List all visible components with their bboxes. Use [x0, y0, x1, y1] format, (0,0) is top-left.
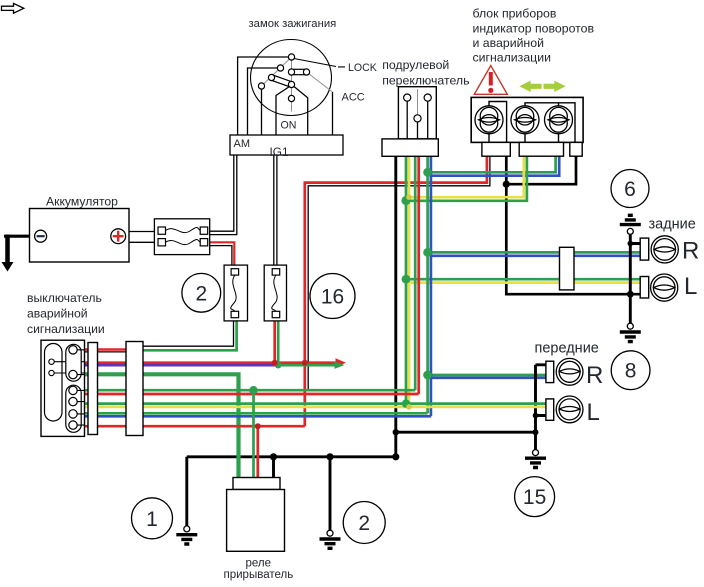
svg-text:задние: задние: [649, 217, 696, 233]
svg-text:выключатель: выключатель: [27, 291, 102, 305]
svg-text:6: 6: [624, 178, 636, 201]
svg-text:8: 8: [625, 360, 637, 383]
svg-text:IG1: IG1: [270, 145, 289, 159]
svg-text:1: 1: [146, 508, 158, 531]
svg-text:и аварийной: и аварийной: [473, 36, 545, 50]
svg-text:ON: ON: [281, 120, 297, 132]
svg-text:замок зажигания: замок зажигания: [249, 18, 337, 30]
svg-text:сигнализации: сигнализации: [473, 51, 552, 65]
svg-text:блок приборов: блок приборов: [473, 7, 557, 21]
svg-text:ACC: ACC: [342, 92, 365, 104]
svg-text:2: 2: [358, 512, 370, 535]
svg-text:L: L: [684, 273, 697, 300]
svg-text:15: 15: [523, 486, 546, 509]
svg-text:AM: AM: [234, 138, 251, 150]
svg-text:R: R: [586, 362, 603, 389]
svg-text:реле: реле: [246, 558, 272, 570]
svg-text:Аккумулятор: Аккумулятор: [46, 195, 118, 209]
svg-text:2: 2: [195, 282, 207, 305]
svg-text:аварийной: аварийной: [27, 307, 88, 321]
svg-text:L: L: [587, 399, 600, 426]
svg-text:переключатель: переключатель: [382, 74, 469, 88]
svg-text:16: 16: [321, 286, 344, 309]
svg-text:передние: передние: [535, 340, 599, 356]
svg-text:подрулевой: подрулевой: [382, 58, 449, 72]
svg-text:LOCK: LOCK: [348, 62, 377, 74]
svg-text:индикатор поворотов: индикатор поворотов: [473, 21, 595, 35]
svg-text:прирыватель: прирыватель: [224, 569, 294, 581]
svg-text:сигнализации: сигнализации: [27, 322, 105, 336]
svg-text:R: R: [682, 238, 699, 265]
